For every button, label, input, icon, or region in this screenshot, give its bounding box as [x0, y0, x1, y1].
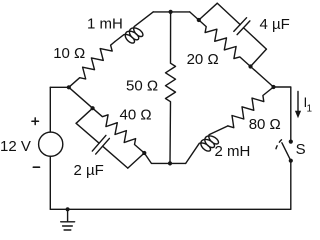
svg-text:12 V: 12 V — [0, 138, 31, 155]
svg-text:1 mH: 1 mH — [87, 16, 123, 33]
svg-text:10 Ω: 10 Ω — [53, 45, 85, 62]
svg-text:40 Ω: 40 Ω — [120, 107, 152, 124]
svg-text:50 Ω: 50 Ω — [126, 78, 158, 95]
svg-text:1: 1 — [307, 104, 313, 115]
svg-text:4 µF: 4 µF — [260, 16, 290, 33]
svg-text:2 mH: 2 mH — [215, 143, 251, 160]
svg-text:80 Ω: 80 Ω — [249, 116, 281, 133]
svg-text:20 Ω: 20 Ω — [187, 51, 219, 68]
svg-text:S: S — [296, 141, 306, 158]
svg-text:2 µF: 2 µF — [74, 162, 104, 179]
